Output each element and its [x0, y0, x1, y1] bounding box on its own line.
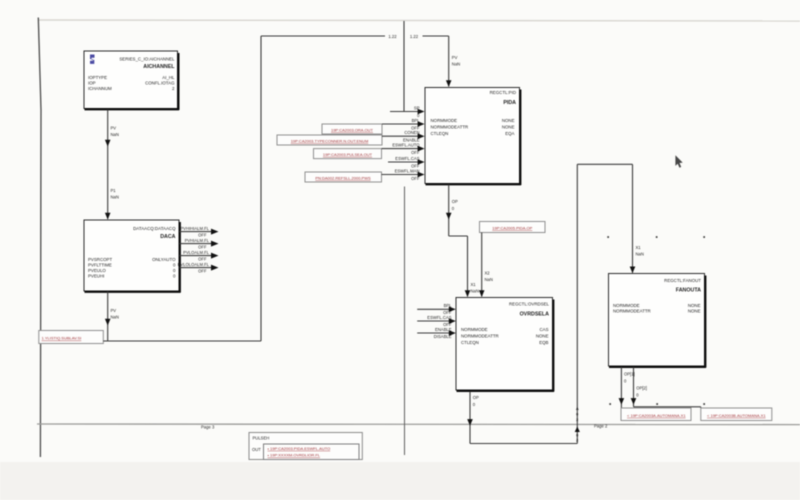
svg-text:X1: X1: [471, 282, 477, 287]
wire PV net top run y=36: [261, 34, 449, 39]
svg-text:ESWFL.AUTO: ESWFL.AUTO: [392, 143, 420, 148]
svg-text:IOPTYPE: IOPTYPE: [88, 75, 107, 80]
block AICHANNEL: [84, 51, 179, 110]
wire stub to PIDA.ESWFL.CAS: [388, 156, 425, 168]
svg-text:NaN: NaN: [111, 195, 119, 200]
svg-text:PVEULO: PVEULO: [88, 268, 106, 273]
wire riser x=577 to FANOUTA: [575, 164, 580, 443]
page top border: [38, 20, 800, 21]
svg-text:CTLEQN: CTLEQN: [461, 340, 479, 345]
svg-text:SERIES_C_IO:AICHANNEL: SERIES_C_IO:AICHANNEL: [119, 56, 175, 61]
block PIDA: [425, 88, 521, 186]
svg-text:PVLOLOALM.FL: PVLOLOALM.FL: [178, 262, 210, 267]
svg-text:• 19P:XXXXM.OVRDLIOR.FL: • 19P:XXXXM.OVRDLIOR.FL: [268, 453, 321, 458]
svg-text:OFF: OFF: [198, 268, 207, 273]
svg-text:1.22: 1.22: [410, 34, 419, 39]
connection label box 19P:CA2003A.AUTOMANA.X1: [621, 408, 691, 421]
svg-text:REGCTL:FANOUT: REGCTL:FANOUT: [664, 278, 701, 283]
wire SP from page top: [390, 21, 425, 118]
block DACA: [84, 220, 181, 293]
outside-page bottom strip: [0, 462, 800, 500]
svg-text:NONE: NONE: [688, 309, 701, 314]
wire DACA.PVLOALM.FL output: [180, 250, 219, 261]
svg-text:PV: PV: [111, 126, 117, 131]
svg-text:PVSRCOPT: PVSRCOPT: [88, 257, 112, 262]
svg-text:OVRDSELA: OVRDSELA: [520, 312, 550, 318]
connection label box 19P:CA2003B.AUTOMANA.X1: [701, 408, 772, 421]
wire DACA.PVHIHIALM.FL output: [180, 226, 219, 237]
wire FANOUTA.OP2 down and right: [631, 367, 701, 408]
reference box 19P:CA2003.ORA.OUT: [322, 124, 382, 134]
svg-text:19P:CA2005.PIDA.OP: 19P:CA2005.PIDA.OP: [492, 225, 532, 230]
svg-text:PULSEH: PULSEH: [253, 436, 270, 441]
svg-text:OFF: OFF: [198, 244, 207, 249]
svg-text:NONE: NONE: [502, 124, 515, 129]
svg-text:PN:DA002.REFSLL.2000.PWS: PN:DA002.REFSLL.2000.PWS: [315, 175, 371, 180]
wire DACA.PVHIALM.FL output: [180, 238, 219, 249]
svg-text:P1: P1: [111, 188, 117, 193]
svg-text:NaN: NaN: [111, 132, 119, 137]
svg-text:X1: X1: [636, 245, 642, 250]
svg-text:OFF: OFF: [198, 232, 207, 237]
svg-text:PVLOALM.FL: PVLOALM.FL: [183, 250, 210, 255]
wire PV net drop into PIDA.PV: [446, 36, 460, 87]
svg-text:Page 2: Page 2: [594, 424, 608, 429]
svg-text:19P:CA2003.TYPECONNER.N.OUT.EN: 19P:CA2003.TYPECONNER.N.OUT.ENUM: [291, 138, 369, 143]
svg-text:Page 3: Page 3: [201, 425, 215, 430]
fold line lower segment: [404, 187, 406, 456]
svg-text:REGCTL:OVRDSEL: REGCTL:OVRDSEL: [509, 302, 550, 307]
svg-text:EQB: EQB: [539, 340, 548, 345]
svg-text:PV: PV: [452, 55, 458, 60]
svg-text:CONFL.IOTAG: CONFL.IOTAG: [145, 81, 175, 86]
svg-text:OUT: OUT: [252, 447, 261, 452]
block OVRDSELA: [456, 298, 554, 392]
svg-text:19P:CA2003.PULSEA.OUT: 19P:CA2003.PULSEA.OUT: [323, 152, 373, 157]
wire OVRDSELA.OP down and right: [467, 392, 577, 444]
wire PIDA.OP ref to OVRDSELA.X2: [479, 233, 493, 298]
svg-text:DACA: DACA: [160, 234, 175, 240]
page divider line: [37, 423, 800, 426]
svg-text:< 19P:CA2003B.AUTOMANA.X1: < 19P:CA2003B.AUTOMANA.X1: [707, 413, 766, 418]
reference box 19P:CA2005.PIDA.OP: [480, 222, 546, 233]
svg-text:FANOUTA: FANOUTA: [676, 288, 701, 294]
wire PV net bottom run to the right: [103, 340, 261, 342]
svg-text:ESWFL.MAN: ESWFL.MAN: [395, 168, 420, 173]
svg-text:X2: X2: [485, 271, 491, 276]
svg-text:NaN: NaN: [485, 277, 493, 282]
wire stub to OVRDSELA.ESWFL.CAS: [417, 315, 456, 327]
PULSEH summary box: [249, 433, 362, 460]
svg-text:AICHANNEL: AICHANNEL: [143, 64, 175, 70]
svg-text:NaN: NaN: [471, 289, 479, 294]
reference box 19P:CA2003.TYPECONNER.N.OUT.ENUM: [277, 135, 382, 145]
svg-text:NONE: NONE: [502, 118, 515, 123]
mouse cursor: [675, 155, 682, 167]
svg-text:NONE: NONE: [688, 303, 701, 308]
svg-text:NaN: NaN: [636, 252, 644, 257]
svg-text:EQA: EQA: [505, 131, 514, 136]
grid dot row lower: [609, 403, 611, 405]
svg-text:NORMMODE: NORMMODE: [613, 303, 640, 308]
svg-text:PVHIALM.FL: PVHIALM.FL: [185, 238, 210, 243]
svg-text:PVEUHI: PVEUHI: [88, 274, 104, 279]
svg-text:19P:CA2003.ORA.OUT: 19P:CA2003.ORA.OUT: [331, 127, 374, 132]
wire PIDA.OP to OVRDSELA.X1: [446, 185, 479, 298]
page crossing arrow up: [575, 427, 580, 433]
icon AICHANNEL block badge: [90, 55, 95, 64]
svg-text:NaN: NaN: [111, 315, 119, 320]
svg-text:OFF: OFF: [198, 256, 207, 261]
svg-text:OP[2]: OP[2]: [636, 386, 647, 391]
connection label box 1.YLISTIQ.SUBLAV.SI: [39, 331, 104, 344]
svg-text:CONEN: CONEN: [404, 130, 419, 135]
wire DACA.PV down to connector label: [105, 292, 119, 342]
svg-text:ONLYAUTO: ONLYAUTO: [152, 257, 176, 262]
svg-text:PV: PV: [111, 308, 117, 313]
svg-text:NORMMODEATTR: NORMMODEATTR: [461, 333, 499, 338]
wire PULSEA.OUT to PIDA.ESWFL.AUTO: [382, 143, 425, 155]
svg-text:NORMMODE: NORMMODE: [431, 118, 458, 123]
wire TYPECONNER to PIDA.CONEN: [382, 130, 425, 142]
svg-text:NORMMODEATTR: NORMMODEATTR: [431, 124, 469, 129]
svg-text:OP: OP: [452, 199, 458, 204]
reference box 19P:CA2003.PULSEA.OUT: [314, 149, 382, 159]
reference box PN:DA002.REFSLL.2000.PWS: [305, 172, 382, 182]
wire stub to OVRDSELA.BPL: [417, 303, 456, 315]
svg-text:ESWFL.CAS: ESWFL.CAS: [427, 315, 451, 320]
svg-text:NORMMODE: NORMMODE: [461, 327, 488, 332]
wire DACA.PVLOLOALM.FL output: [178, 262, 219, 273]
svg-text:NONE: NONE: [536, 333, 549, 338]
svg-text:A: A: [576, 406, 579, 411]
svg-text:REGCTL:PID: REGCTL:PID: [490, 90, 516, 95]
wire FANOUTA.OP1 down: [619, 367, 635, 408]
svg-text:IOP: IOP: [88, 81, 96, 86]
svg-text:• 19P:CA2003.PIDA.ESWFL.AUTO: • 19P:CA2003.PIDA.ESWFL.AUTO: [268, 446, 331, 451]
wire AICHANNEL.PV to DACA.P1: [105, 110, 119, 220]
page left border: [38, 18, 41, 458]
svg-text:PIDA: PIDA: [503, 100, 516, 106]
svg-text:ESWFL.CAS: ESWFL.CAS: [395, 156, 419, 161]
grid dot row upper: [607, 236, 609, 238]
wire PV net vertical riser x=261: [260, 36, 262, 341]
svg-text:DATAACQ:DATAACQ: DATAACQ:DATAACQ: [133, 226, 176, 231]
wire stub to OVRDSELA.ENABLE: [417, 327, 456, 339]
svg-text:AI_HL: AI_HL: [162, 75, 175, 80]
svg-text:CTLEQN: CTLEQN: [431, 131, 449, 136]
wire ORA.OUT to PIDA.BPL: [382, 118, 425, 130]
wire REFSLL to PIDA.ESWFL.MAN: [382, 168, 425, 180]
svg-text:PVHIHIALM.FL: PVHIHIALM.FL: [180, 226, 209, 231]
svg-text:< 19P:CA2003A.AUTOMANA.X1: < 19P:CA2003A.AUTOMANA.X1: [627, 413, 686, 418]
block FANOUTA: [609, 274, 707, 368]
svg-text:NaN: NaN: [452, 62, 460, 67]
svg-text:PVFLTTIME: PVFLTTIME: [88, 262, 112, 267]
svg-text:ICHANNUM: ICHANNUM: [88, 86, 112, 91]
svg-text:OP: OP: [473, 395, 479, 400]
svg-text:NORMMODEATTR: NORMMODEATTR: [613, 309, 651, 314]
wire top run into FANOUTA.X1: [577, 164, 644, 273]
svg-text:1.22: 1.22: [388, 34, 397, 39]
svg-text:CAS: CAS: [539, 327, 548, 332]
svg-text:1.YLISTIQ.SUBLAV.SI: 1.YLISTIQ.SUBLAV.SI: [42, 336, 82, 341]
